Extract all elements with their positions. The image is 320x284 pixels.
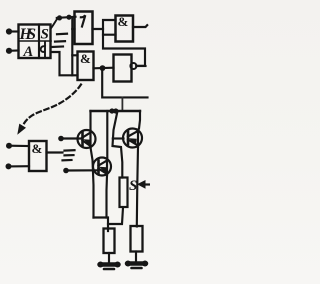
svg-text:HS: HS bbox=[19, 26, 37, 43]
label 1 bbox=[81, 15, 85, 26]
T1 base terminal dot bbox=[58, 136, 64, 142]
wire T3 collector bbox=[106, 111, 108, 158]
wire branch to AND3 input 1 bbox=[72, 54, 77, 56]
wire T3 base (crosses T1 emitter) bbox=[66, 169, 99, 171]
svg-text:S: S bbox=[129, 178, 137, 194]
wire faint drop to rail bbox=[121, 97, 123, 111]
resistor R2 bottom left bbox=[104, 229, 115, 254]
wire rail left corner to T1 collector bbox=[89, 111, 91, 130]
U5 input dot 1 bbox=[6, 143, 12, 149]
ground right bbox=[125, 261, 148, 269]
rail dot 1 bbox=[109, 108, 114, 113]
svg-text:&: & bbox=[32, 141, 43, 156]
break mark bars at U5 output bbox=[65, 149, 75, 152]
wire top node rail bbox=[57, 17, 76, 18]
wire AND3 output bbox=[94, 67, 114, 70]
wire bubble output bbox=[136, 65, 145, 67]
flip-flop block HS/A bbox=[19, 25, 52, 59]
AND gate U2 top right bbox=[116, 16, 134, 42]
svg-text:&: & bbox=[118, 14, 129, 29]
wire branch to AND2 second input bbox=[103, 34, 116, 36]
AND gate U3 middle bbox=[78, 52, 94, 81]
wire inverter output bbox=[93, 20, 116, 29]
node dot B bbox=[100, 65, 106, 71]
transistor T3 bbox=[93, 158, 111, 176]
input terminal dot 1 bbox=[6, 28, 12, 34]
wire U5 input 2 bbox=[9, 165, 30, 167]
wire from node B down and right to edge bbox=[102, 68, 147, 97]
NAND block U4 bbox=[114, 55, 132, 82]
node dot A2 bbox=[66, 15, 71, 20]
svg-text:S: S bbox=[41, 27, 49, 43]
wire AND2 output to edge bbox=[133, 25, 147, 27]
break mark bar b bbox=[55, 40, 65, 43]
dashed pointer arrow bbox=[24, 85, 82, 125]
transistor T1 bbox=[78, 130, 96, 148]
collector rail bbox=[91, 110, 141, 112]
wire R2 to ground bbox=[108, 253, 110, 263]
inverter block 1 bbox=[75, 12, 93, 45]
wire feedback branch to AND input 2 bbox=[103, 29, 145, 66]
svg-text:A: A bbox=[23, 44, 34, 60]
inverter bubble bbox=[130, 63, 136, 69]
input terminal dot 2 bbox=[6, 48, 12, 54]
AND gate U5 lower left bbox=[29, 141, 47, 171]
resistor R3 bottom right bbox=[131, 226, 143, 252]
wire T3 emitter down bbox=[105, 175, 108, 217]
wire rail right corner to T2 collector bbox=[139, 111, 140, 129]
wire HS top output diagonal up to node bbox=[52, 19, 58, 28]
pin symbol d (dynamic output) bbox=[41, 42, 45, 57]
wire input2 to A bbox=[9, 49, 19, 51]
emitter join wire bbox=[94, 218, 109, 232]
break mark bar c bbox=[52, 45, 63, 48]
ground left bbox=[98, 262, 121, 270]
U5 input dot 2 bbox=[6, 163, 12, 169]
transistor T2 bbox=[123, 129, 142, 148]
wire S resistor bottom to emitter node bbox=[108, 208, 123, 225]
wire T2 base bbox=[113, 137, 124, 139]
wire R3 to ground bbox=[135, 252, 137, 262]
break mark bar a bbox=[57, 33, 67, 36]
wire T1 base bbox=[61, 137, 83, 139]
wire vertical from node down bbox=[71, 18, 73, 76]
wire T2 base feed from rail bbox=[113, 111, 123, 178]
node dot A1 bbox=[57, 15, 62, 20]
resistor R1 (S input) bbox=[120, 178, 128, 208]
svg-text:&: & bbox=[80, 51, 91, 66]
rail dot 2 bbox=[113, 108, 118, 113]
wire input1 to HS bbox=[9, 30, 19, 32]
wire U5 input 1 bbox=[9, 145, 29, 147]
S input arrow bbox=[144, 183, 150, 185]
wire tap to inverter input bbox=[72, 28, 74, 30]
wire HS bottom output bbox=[51, 52, 78, 75]
wire T1 emitter down bbox=[91, 147, 94, 217]
T3 base terminal dot bbox=[63, 168, 69, 174]
wire T2 emitter down bbox=[137, 147, 138, 227]
wire U5 output bbox=[47, 151, 63, 153]
